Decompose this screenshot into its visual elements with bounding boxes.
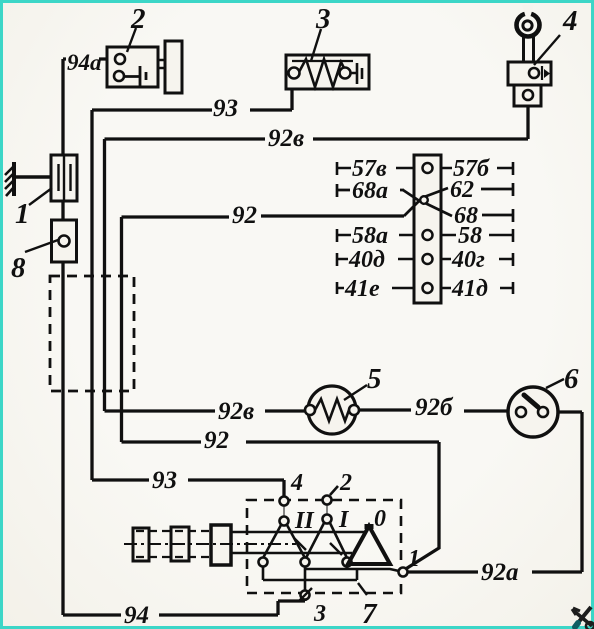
- switch 6 body: [508, 387, 558, 437]
- switch 7 contact triangle I: [306, 523, 347, 558]
- leader line label 3: [311, 29, 321, 61]
- turn-signal switch 7 dashed housing: [247, 500, 401, 593]
- leader line label 1: [29, 188, 52, 205]
- fuse block terminal 57: [423, 163, 433, 173]
- switch 7 terminal 1: [399, 568, 408, 577]
- resistor 3 terminal left: [289, 68, 300, 79]
- switch 7 terminal 3: [301, 591, 310, 600]
- fuse 1 inner element: [59, 155, 71, 201]
- resistor 3 upper bus: [292, 60, 353, 62]
- switch 7 shaft block C: [211, 525, 231, 565]
- svg-text:41е: 41е: [344, 276, 380, 302]
- fuse block row 68 wire: [482, 209, 513, 222]
- relay 2 terminal a: [115, 54, 125, 64]
- svg-text:93: 93: [152, 467, 177, 494]
- fuse block terminal 41: [423, 283, 433, 293]
- switch 4 contact arrow: [541, 66, 543, 80]
- switch 7 shaft rod lines: [231, 532, 366, 553]
- lamp 5 body: [308, 386, 356, 434]
- svg-text:2: 2: [339, 470, 352, 496]
- svg-text:4: 4: [290, 470, 303, 496]
- svg-text:6: 6: [564, 363, 579, 395]
- svg-text:II: II: [294, 508, 315, 534]
- svg-text:92: 92: [204, 427, 229, 454]
- svg-text:68а: 68а: [352, 178, 388, 204]
- fuse block terminal 62/68: [420, 196, 428, 204]
- switch 6 terminal left: [516, 407, 526, 417]
- switch 6 terminal right: [538, 407, 548, 417]
- wire 92в lower run to lamp 5: [105, 409, 311, 412]
- svg-text:1: 1: [408, 546, 420, 572]
- switch 4 key hole: [523, 21, 532, 30]
- switch 7 shaft block B: [171, 527, 189, 561]
- svg-text:92а: 92а: [481, 559, 519, 586]
- fuse block row 68а wire: [337, 184, 404, 197]
- switch 7 movable contact marks: [294, 538, 342, 555]
- svg-text:3: 3: [313, 601, 326, 627]
- wire 93 top run to resistor 3: [92, 89, 292, 110]
- dashed connector box left: [50, 276, 134, 391]
- fuse block body: [414, 155, 441, 303]
- fuse block terminal 40: [423, 254, 433, 264]
- svg-text:92в: 92в: [268, 125, 304, 152]
- wire 92 top run to fuse block terminal: [122, 216, 405, 217]
- connector 8 body: [52, 220, 77, 262]
- switch 7 contact I upper: [326, 504, 328, 515]
- svg-text:58а: 58а: [352, 223, 388, 249]
- svg-text:94: 94: [124, 602, 149, 629]
- svg-text:0: 0: [374, 506, 386, 532]
- svg-text:1: 1: [15, 198, 30, 230]
- svg-text:92в: 92в: [218, 398, 254, 425]
- ground symbol at fuse 1: [5, 162, 57, 196]
- lamp 5 filament zigzag: [315, 399, 349, 421]
- wire 92 vertical trunk: [120, 217, 123, 442]
- svg-text:58: 58: [458, 223, 482, 249]
- svg-text:40д: 40д: [348, 247, 385, 273]
- switch 4 key shaft: [524, 35, 534, 62]
- switch 4 lower terminal: [523, 90, 533, 100]
- svg-text:92б: 92б: [415, 394, 454, 421]
- switch 7 contact II upper: [283, 505, 285, 517]
- resistor 3 element zigzag: [299, 59, 345, 87]
- switch 7 bus bars: [263, 566, 399, 590]
- leader line label 7: [358, 583, 367, 595]
- switch 7 terminal 2: [330, 486, 338, 495]
- horn body: [165, 41, 182, 93]
- fuse 1 body: [51, 155, 77, 201]
- fuse block row 40д-40г wire: [337, 253, 513, 266]
- fuse block crossover diagonals: [403, 188, 452, 216]
- svg-text:3: 3: [315, 3, 331, 35]
- switch 4 upper terminal: [529, 68, 539, 78]
- lamp 5 terminal left: [305, 405, 315, 415]
- wire 93 lower run to terminal 4: [92, 480, 284, 497]
- switch 7 contact triangle II: [263, 525, 305, 558]
- relay 2 terminal b: [114, 71, 124, 81]
- switch 7 rotor triangle 0: [348, 526, 390, 564]
- lamp 5 terminal right: [349, 405, 359, 415]
- switch 4 key head: [517, 14, 540, 37]
- switch 7 shaft dashed outline: [136, 531, 211, 557]
- svg-text:40г: 40г: [451, 247, 485, 273]
- wire 92в vertical trunk: [103, 139, 106, 411]
- switch 7 shaft centerline: [124, 543, 296, 545]
- switch 7 bottom contact middle: [301, 558, 310, 567]
- switch 7 terminal 4: [280, 497, 289, 506]
- wire 94а label stubs to relay 2: [63, 57, 115, 60]
- wire 92 lower run down to terminal 1: [122, 442, 440, 570]
- fuse block row 58а-58 wire: [337, 229, 513, 242]
- svg-text:7: 7: [362, 598, 378, 629]
- watermark tools icon: [572, 607, 594, 629]
- fuse block row 41е-41д wire: [337, 282, 513, 294]
- leader line label 4: [534, 35, 560, 65]
- leader line label 8: [25, 240, 58, 252]
- connector 8 terminal: [59, 236, 70, 247]
- svg-text:5: 5: [367, 363, 382, 395]
- svg-text:94а: 94а: [67, 50, 102, 75]
- fuse block terminal 58: [423, 230, 433, 240]
- leader line label 5: [344, 385, 367, 400]
- fuse block row 57в-57б wire: [337, 162, 513, 175]
- svg-text:41д: 41д: [451, 276, 488, 302]
- resistor 3 terminal right: [340, 68, 351, 79]
- resistor 3 body: [286, 55, 369, 89]
- wire 94а/94 left vertical trunk: [61, 59, 64, 615]
- wire 92а from switch 6 down to terminal 1: [407, 412, 582, 572]
- switch 7 bottom contact left: [259, 558, 268, 567]
- resistor 3 ground mark: [350, 63, 362, 84]
- leader line label 2: [127, 28, 136, 52]
- wire 92б between lamp 5 and switch 6: [357, 410, 509, 411]
- switch 7 shaft centerline over blocks: [124, 543, 296, 545]
- switch 4 upper box: [508, 62, 551, 85]
- leader line label 6: [546, 379, 564, 388]
- switch 7 bottom contact right: [343, 558, 352, 567]
- svg-text:62: 62: [450, 177, 474, 203]
- svg-text:2: 2: [130, 3, 146, 35]
- wire 94 bottom run to terminal 3: [63, 599, 305, 615]
- wire 92в top run to switch 4: [105, 100, 529, 139]
- relay 2 internal ground: [124, 66, 146, 87]
- svg-text:I: I: [338, 507, 350, 533]
- svg-text:8: 8: [11, 252, 26, 284]
- switch 6 lever: [524, 395, 538, 407]
- fuse block row 62 wire: [481, 183, 513, 196]
- switch 4 lower box: [514, 85, 541, 106]
- svg-text:93: 93: [213, 95, 238, 122]
- switch 7 shaft block A: [133, 528, 149, 561]
- relay 2 body: [107, 47, 158, 87]
- relay 2 links to horn: [158, 60, 165, 68]
- svg-text:92: 92: [232, 202, 257, 229]
- wire 93 vertical trunk: [90, 110, 93, 480]
- svg-text:4: 4: [562, 5, 578, 37]
